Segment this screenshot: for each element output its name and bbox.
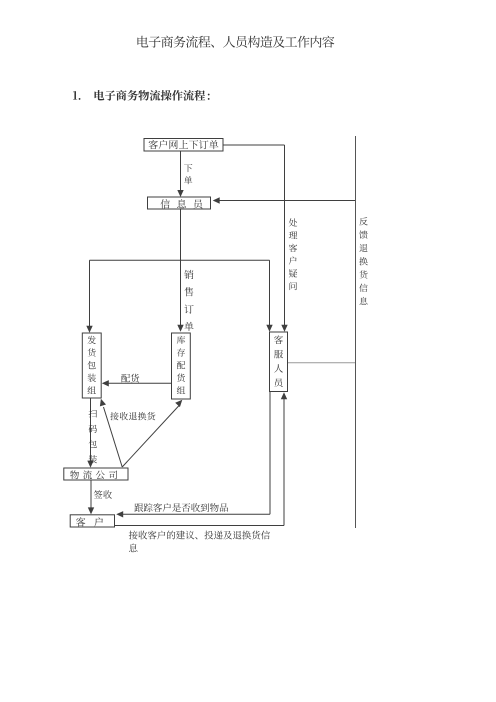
title 电子商务流程、人员构造及工作内容: [137, 36, 334, 48]
box 发货包装组: [82, 333, 101, 398]
wire 接收退换货 diagonal to 库存配货组: [122, 400, 182, 467]
wire long vertical 反馈 line: [355, 136, 357, 528]
wire 销售订单: 信息员 -> 库存配货组: [177, 209, 183, 332]
label 扫码包装: [89, 409, 97, 463]
wire split -> 客服人员: [266, 260, 272, 332]
wire 接收退换货 diagonal to 发货包装组: [100, 399, 122, 467]
label 签收: [94, 490, 112, 498]
heading 1. 电子商务物流操作流程:: [73, 90, 210, 101]
box 物流公司: [64, 468, 128, 480]
wire 配货: 库存配货组 -> 发货包装组: [102, 380, 172, 386]
label 下单: [184, 164, 192, 184]
box 信息员: [148, 197, 211, 209]
box 客服人员: [270, 332, 288, 392]
label 处理客户疑问: [289, 218, 298, 290]
wire from 客户网上下订单 right to 客服人员 top: [223, 145, 288, 332]
wire 扫码包装: 发货包装组 -> 物流公司: [87, 398, 93, 468]
wire 接收客户的建议: 客户 -> 客服人员: [115, 392, 288, 525]
box 库存配货组: [172, 333, 191, 399]
wire 处理客户疑问: right line into 信息员: [213, 197, 355, 203]
wire 下单: 客户网上下订单 -> 信息员: [177, 151, 183, 197]
label 接收客户的建议、投递及退换货信息: [129, 531, 270, 553]
label 跟踪客户是否收到物品: [134, 503, 228, 512]
wire 客服人员 -> 反馈 line: [288, 362, 356, 364]
wire 签收: 物流公司 -> 客户: [88, 480, 94, 514]
wire split -> 发货包装组: [86, 260, 92, 333]
wire 跟踪客户是否收到物品: 客服人员 -> 客户: [116, 392, 270, 518]
box 客户: [70, 515, 114, 527]
label 反馈退换货信息: [359, 217, 368, 305]
box 客户网上下订单: [144, 139, 223, 152]
label 销售订单: [184, 270, 193, 331]
label 接收退换货: [110, 412, 155, 420]
label 配货: [121, 374, 139, 383]
wire split horizontal: [90, 259, 270, 261]
